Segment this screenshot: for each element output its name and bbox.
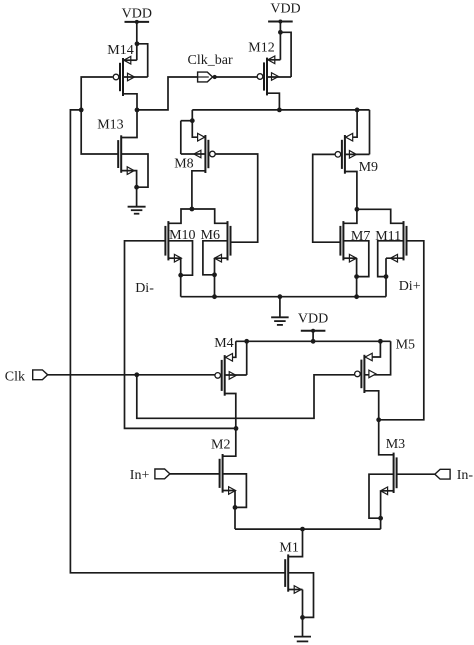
- wire In+ to M2 gate: [170, 473, 220, 475]
- wire node to Clk_bar port: [137, 77, 199, 110]
- power VDD symbol (VDD2): [268, 21, 293, 23]
- wire In- to M3 gate: [397, 473, 435, 475]
- node M12 drain on rail: [277, 108, 282, 113]
- node M1 drain on tail rail: [300, 527, 305, 532]
- wire M6 source down: [215, 257, 228, 259]
- node Di- junction (M4/M2 drains): [234, 426, 239, 431]
- wire M14 body tie: [137, 44, 148, 77]
- node M10 source/body junction: [178, 273, 183, 278]
- wire M9 drain down to latch node: [345, 172, 357, 210]
- svg-text:M5: M5: [396, 338, 415, 353]
- wire Clk_bar to M12 gate: [213, 76, 258, 78]
- svg-text:M1: M1: [279, 541, 298, 556]
- wire VDD1 to M14 source: [136, 22, 138, 60]
- wire M10 body stub: [168, 241, 192, 275]
- wire ground stem: [279, 297, 281, 318]
- wire M2 source down to tail: [223, 490, 235, 492]
- node M11 source/body junction: [384, 274, 389, 279]
- node at Clk_bar port tip: [213, 75, 217, 79]
- node M6 source on rail: [212, 294, 217, 299]
- wire long left rail (M13/M14 gates to M1 gate): [70, 110, 285, 573]
- wire M14 body stub: [123, 76, 148, 78]
- wire M14 gate to M13 gate: [81, 77, 118, 154]
- wire M5 body tie: [364, 341, 390, 375]
- wire M11 body stub: [378, 241, 404, 277]
- wire M13 source down to ground: [121, 171, 136, 207]
- svg-text:M11: M11: [375, 229, 401, 244]
- wire rail end down to M9 body: [369, 110, 371, 154]
- wire M1 body stub: [288, 573, 313, 618]
- wire rail down to M9 source: [345, 110, 357, 137]
- wire M4 body tie: [246, 341, 248, 375]
- node M3 source/body junction: [378, 516, 383, 521]
- svg-text:M2: M2: [211, 437, 230, 452]
- node Clk branch to M5 gate: [134, 372, 139, 377]
- svg-text:M12: M12: [248, 40, 274, 55]
- wire to M10 drain: [168, 209, 192, 223]
- power VDD symbol (VDD1): [125, 21, 150, 23]
- wire rail to M4 source: [225, 341, 236, 357]
- svg-text:Clk: Clk: [5, 370, 25, 385]
- transistor M2 (NMOS) body: [220, 454, 236, 494]
- transistor M7 (NMOS) body: [340, 221, 356, 262]
- transistor M6 (NMOS) body: [215, 221, 231, 262]
- node Clk_bar at M13/M14 drains: [135, 108, 140, 113]
- wire Clk branch to M5 gate: [137, 375, 355, 419]
- node M9 source on rail: [355, 108, 360, 113]
- wire M14 drain down to node Clk_bar: [123, 94, 137, 110]
- wire M3 source down to tail: [381, 490, 394, 492]
- transistor M10 (NMOS) body: [165, 221, 181, 262]
- transistor M1 (NMOS) body: [285, 554, 301, 593]
- port In+ (input): [155, 469, 170, 479]
- wire M1 source down to ground: [288, 589, 302, 591]
- wire VDD3 stem: [312, 331, 314, 342]
- transistor M5 (PMOS) body: [355, 353, 376, 393]
- svg-text:In+: In+: [130, 468, 150, 483]
- wire M12 body tie: [280, 32, 291, 77]
- svg-text:Di-: Di-: [135, 281, 154, 296]
- wire M13 drain up to node Clk_bar: [121, 110, 137, 138]
- wire to M11 drain: [357, 209, 404, 223]
- node M6 source/body junction: [212, 272, 217, 277]
- wire VDD2 to M12 source: [279, 22, 281, 60]
- wire to M6 drain: [192, 209, 228, 223]
- svg-text:M8: M8: [174, 157, 193, 172]
- ground (below M1): [294, 636, 311, 638]
- wire precharge source rail: [236, 340, 391, 342]
- wire M4 drain down to M2 drain: [223, 394, 236, 457]
- node on gate rail (to long left rail): [79, 108, 84, 113]
- port Clk_bar (output): [198, 72, 213, 82]
- svg-text:M14: M14: [107, 43, 133, 58]
- wire input pair tail rail: [235, 528, 381, 530]
- svg-text:M7: M7: [351, 229, 370, 244]
- node ground stem on rail: [278, 294, 283, 299]
- svg-text:Di+: Di+: [399, 279, 421, 294]
- node VDD3 on rail: [311, 339, 316, 344]
- ground (below M13): [128, 206, 146, 208]
- node Di+ junction (M5/M3 drains): [376, 417, 381, 422]
- wire rail to M5 source: [364, 341, 380, 357]
- transistor M11 (NMOS) body: [391, 221, 407, 262]
- wire M12 source stub: [267, 59, 280, 61]
- svg-text:In-: In-: [457, 468, 474, 483]
- wire M3 body stub: [369, 474, 394, 518]
- node M2 source/body junction: [233, 505, 238, 510]
- wire M8 drain down to latch node: [192, 171, 206, 209]
- transistor M8 (PMOS) body: [194, 133, 215, 173]
- wire M9 gate to M7 gate (cross-couple): [313, 154, 341, 242]
- node M1 source/body junction: [300, 615, 305, 620]
- transistor M3 (NMOS) body: [381, 453, 397, 495]
- svg-text:M4: M4: [214, 336, 233, 351]
- node M7 source on rail: [354, 294, 359, 299]
- wire latch source rail: [181, 296, 386, 298]
- wire M9 body stub: [345, 153, 370, 155]
- wire Clk to M4 gate: [48, 374, 215, 376]
- svg-text:M13: M13: [97, 118, 123, 133]
- port In- (input): [435, 469, 450, 479]
- wire M7 source down: [343, 257, 356, 259]
- wire M2 body stub: [223, 474, 247, 508]
- wire M10 source down: [168, 257, 180, 259]
- power VDD symbol (VDD3): [301, 330, 326, 332]
- wire M8 body stub: [181, 153, 206, 155]
- node M4 body on rail: [244, 339, 249, 344]
- svg-text:VDD: VDD: [122, 7, 152, 22]
- node M5 source on rail: [378, 339, 383, 344]
- wire M8 gate to M6 gate (cross-couple): [215, 154, 258, 242]
- wire M1 drain: [288, 529, 302, 557]
- wire M8 body tie: [181, 120, 193, 122]
- wire M5 drain down to M3 drain: [364, 391, 393, 455]
- svg-text:M9: M9: [359, 160, 378, 175]
- wire M6 body stub: [203, 241, 228, 275]
- wire M7 body stub: [343, 241, 368, 277]
- node M14 source/body junction: [135, 41, 140, 46]
- wire rail down to M8 source: [192, 110, 205, 137]
- node M13 source/body junction: [134, 185, 139, 190]
- transistor M13 (NMOS) body: [118, 135, 134, 174]
- node M8 source/body junction: [190, 118, 195, 123]
- wire M11 source down: [386, 257, 404, 259]
- wire M10 gate to Di- rail: [125, 241, 237, 429]
- node M7 source/body junction: [354, 274, 359, 279]
- port Clk (input): [33, 370, 48, 380]
- node M12 source/body junction: [278, 30, 283, 35]
- wire M12 body stub: [267, 76, 291, 78]
- transistor M9 (PMOS) body: [335, 133, 356, 173]
- svg-text:VDD: VDD: [270, 2, 300, 17]
- wire M4 body stub: [225, 374, 247, 376]
- wire M14 source stub: [123, 59, 137, 61]
- transistor M4 (PMOS) body: [215, 354, 236, 396]
- node M9 drain / M7 M11 drains: [355, 207, 360, 212]
- wire to M7 drain: [343, 209, 357, 223]
- wire upper rail: [192, 109, 369, 111]
- svg-text:M3: M3: [386, 437, 405, 452]
- transistor M12 (PMOS) body: [257, 56, 278, 95]
- wire M12 drain down to rail: [267, 93, 279, 110]
- svg-text:Clk_bar: Clk_bar: [188, 53, 233, 68]
- transistor M14 (PMOS) body: [113, 56, 134, 96]
- ground (latch tail): [271, 316, 289, 318]
- svg-text:VDD: VDD: [298, 312, 328, 327]
- wire M13 body stub: [121, 154, 148, 187]
- node M8 drain / M10 M6 drains: [190, 207, 195, 212]
- wire M11 gate to Di+ rail: [379, 241, 424, 420]
